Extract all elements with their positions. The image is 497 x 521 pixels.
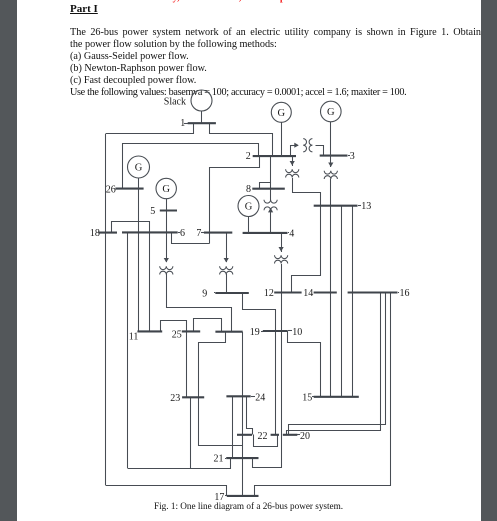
bus 3: [320, 155, 348, 157]
generator G2 (bus 2): [271, 102, 291, 156]
wire line 16-20 outer jog: [287, 293, 381, 435]
wire tick label 21: [225, 458, 226, 460]
wire tick label 9: [214, 292, 215, 294]
wire line 2-26: [123, 144, 259, 189]
bus 22 left: [237, 434, 252, 436]
wire line 6-21 long vertical: [127, 232, 129, 468]
wire tick label 10: [288, 330, 292, 332]
wire tick label 20: [297, 434, 300, 436]
svg-text:22: 22: [258, 431, 268, 442]
svg-text:3: 3: [350, 151, 355, 162]
wire line 6-7 staple: [172, 233, 210, 244]
svg-text:14: 14: [303, 288, 313, 299]
wire tick label 19: [261, 331, 263, 333]
bus 17: [227, 495, 259, 497]
bus 19: [215, 331, 242, 333]
svg-text:G: G: [135, 163, 143, 174]
bus 14: [314, 291, 337, 293]
svg-text:2: 2: [246, 151, 251, 162]
transformer T2-3 horizontal windings: [303, 139, 312, 152]
svg-text:18: 18: [90, 228, 100, 239]
svg-text:8: 8: [246, 184, 251, 195]
bus 12: [274, 291, 301, 293]
wire tick label 1: [184, 123, 188, 125]
svg-text:16: 16: [400, 288, 410, 299]
wire tick label 6: [178, 232, 180, 234]
wire tick label 4: [288, 232, 289, 234]
wire line 12-13: [292, 206, 321, 293]
svg-text:24: 24: [255, 393, 265, 404]
transformer T2-13: [286, 161, 299, 193]
bus 11: [137, 330, 162, 332]
clipped due-date line: [129, 0, 343, 3]
bus 7: [204, 232, 232, 234]
bus 9: [215, 292, 249, 294]
wire line 12-22: [281, 292, 283, 435]
svg-text:20: 20: [300, 431, 310, 442]
wire line 6-19 elbow to bus 19: [167, 308, 232, 332]
svg-text:Slack: Slack: [164, 97, 186, 108]
wire line 26-11: [138, 189, 140, 331]
svg-text:15: 15: [302, 393, 312, 404]
left gray viewer strip: [0, 0, 17, 521]
bus 20: [283, 434, 298, 436]
wire line 13-16-15: [352, 206, 354, 397]
svg-text:12: 12: [264, 288, 274, 299]
bus 25: [182, 330, 200, 332]
wire line 2-3 right segment: [316, 146, 324, 156]
transformer T6-19: [160, 258, 173, 308]
wire line 19-25 staple: [194, 319, 222, 332]
heading Part I: [70, 3, 98, 15]
bus 5: [160, 209, 177, 211]
wire line 24-21: [232, 396, 234, 458]
generator G5 (bus 5): [156, 178, 176, 210]
bus 1: [188, 122, 216, 124]
bus 16: [348, 291, 398, 293]
wire line 6-19 upper: [166, 232, 168, 259]
wire line 2-8: [260, 157, 271, 189]
wire line 16-17 outer right: [255, 293, 391, 496]
transformer T4-12: [275, 247, 288, 292]
wire line 2-3 left segment with arrow: [291, 143, 299, 156]
bus 23: [182, 396, 204, 398]
wire line 5-6: [166, 210, 168, 232]
wire line 1-2: [210, 124, 273, 157]
svg-text:17: 17: [214, 492, 224, 503]
wire tick label 17: [225, 495, 227, 497]
wire line 22-21 staple: [253, 435, 282, 468]
wire line 2-7: [210, 157, 260, 244]
svg-text:21: 21: [214, 454, 224, 465]
wire line 1-18/17 outer left vertical: [105, 134, 107, 485]
bus 13: [314, 205, 358, 207]
svg-text:6: 6: [180, 228, 185, 239]
wire line 24-22 jog: [247, 397, 253, 435]
wire line 13-15: [341, 206, 343, 397]
wire line 23 drop to 6-21 run: [190, 397, 192, 468]
wire line 9-10: [243, 293, 276, 435]
svg-text:11: 11: [129, 332, 139, 343]
wire bus1 to node A (1-18 drop left): [106, 124, 194, 134]
wire line 2-13 elbow to bus 13: [293, 193, 321, 206]
bus 8: [252, 188, 284, 190]
wire tick label 7: [201, 232, 204, 234]
wire tick label 13: [358, 205, 361, 207]
generator slack (bus 1): [191, 90, 212, 123]
svg-text:G: G: [327, 107, 335, 118]
wire tick label 3: [348, 155, 350, 157]
wire line 8-4 upper segment: [270, 182, 272, 197]
transformer T7-9: [220, 258, 233, 293]
right gray viewer strip: [481, 0, 497, 521]
bus 2: [253, 155, 296, 157]
svg-text:9: 9: [202, 288, 207, 299]
bus 10: [263, 330, 288, 332]
wire line 10-15: [288, 331, 321, 397]
bus 4: [243, 232, 288, 234]
transformer T3-13: [324, 163, 337, 207]
bus 24: [226, 395, 250, 397]
svg-text:7: 7: [196, 228, 201, 239]
wire line 3-13 upper: [330, 156, 332, 164]
svg-text:13: 13: [361, 201, 371, 212]
wire line 7-9 upper: [226, 233, 228, 259]
wire line 6-18 staple: [112, 222, 150, 233]
wire line 2-13 upper: [292, 156, 294, 162]
wire line 23-21 via bottom: [199, 398, 243, 446]
wire link under bus 22: [254, 435, 278, 447]
svg-text:10: 10: [292, 327, 302, 338]
wire line 6-21 bottom elbow: [128, 459, 231, 469]
svg-text:23: 23: [170, 393, 180, 404]
wire line 11-25 staple: [161, 321, 187, 332]
svg-text:26: 26: [106, 184, 116, 195]
svg-text:4: 4: [289, 229, 294, 240]
generator G4 (bus 4): [238, 196, 259, 234]
bus 15: [314, 396, 359, 398]
wire line 16-20 inner jog: [289, 293, 386, 435]
wire line 17-18 bottom left: [106, 486, 227, 496]
svg-text:G: G: [278, 108, 286, 119]
wire tick label 24: [251, 396, 255, 398]
svg-text:19: 19: [250, 327, 260, 338]
svg-text:G: G: [162, 184, 170, 195]
wire tick label 15: [312, 396, 314, 398]
generator G26 (bus 26): [128, 156, 150, 189]
bus 22 right: [271, 434, 279, 436]
problem paragraph: [70, 27, 481, 99]
wire line 13-14-15: [330, 206, 332, 397]
transformer T8-4: [264, 197, 277, 233]
wire line 19-24-21-17 long vertical: [242, 332, 244, 496]
svg-text:5: 5: [150, 206, 155, 217]
bus 26: [115, 188, 143, 190]
wire line 19-23: [199, 332, 226, 398]
wire line 23-25: [186, 331, 188, 397]
bus 18: [99, 232, 117, 234]
wire tick label 16: [398, 292, 399, 294]
wire line 4-12 upper: [281, 233, 283, 248]
figure caption: [154, 501, 343, 511]
wire line 6-11: [149, 232, 151, 331]
generator G3 (bus 3): [321, 101, 342, 156]
svg-text:25: 25: [172, 329, 182, 340]
bus 6: [122, 231, 178, 233]
bus 21: [226, 457, 258, 459]
svg-text:G: G: [245, 202, 253, 213]
